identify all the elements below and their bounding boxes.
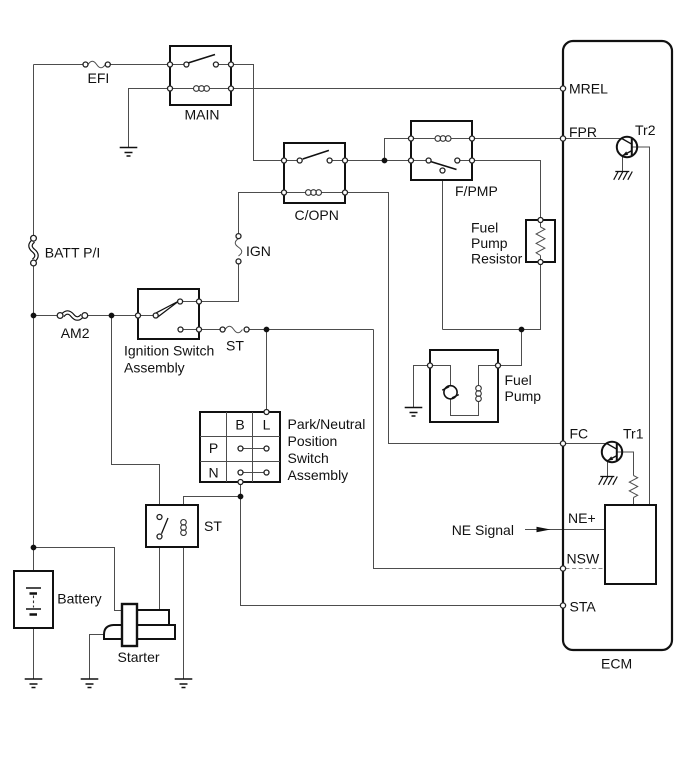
svg-text:F/PMP: F/PMP <box>455 183 498 199</box>
svg-text:P: P <box>209 440 218 456</box>
svg-text:N: N <box>208 465 218 481</box>
svg-text:Fuel: Fuel <box>471 220 498 236</box>
svg-text:BATT P/I: BATT P/I <box>45 245 101 261</box>
svg-text:Position: Position <box>288 433 338 449</box>
svg-text:EFI: EFI <box>88 70 110 86</box>
svg-text:Tr2: Tr2 <box>635 122 656 138</box>
svg-text:Assembly: Assembly <box>124 360 185 376</box>
svg-text:Pump: Pump <box>471 235 508 251</box>
svg-text:Tr1: Tr1 <box>623 426 644 442</box>
svg-text:B: B <box>235 417 244 433</box>
svg-text:Switch: Switch <box>288 450 329 466</box>
svg-text:L: L <box>263 417 271 433</box>
svg-text:ECM: ECM <box>601 656 632 672</box>
svg-text:Resistor: Resistor <box>471 251 523 267</box>
svg-text:Pump: Pump <box>505 388 542 404</box>
svg-text:AM2: AM2 <box>61 325 90 341</box>
svg-text:NE+: NE+ <box>568 510 596 526</box>
svg-text:NSW: NSW <box>567 551 600 567</box>
svg-text:MREL: MREL <box>569 81 608 97</box>
svg-text:C/OPN: C/OPN <box>295 207 339 223</box>
svg-text:Starter: Starter <box>118 649 160 665</box>
svg-text:FC: FC <box>570 426 589 442</box>
svg-text:ST: ST <box>226 338 244 354</box>
svg-text:NE Signal: NE Signal <box>452 522 514 538</box>
svg-text:Battery: Battery <box>57 591 101 607</box>
svg-text:MAIN: MAIN <box>185 107 220 123</box>
svg-text:Ignition Switch: Ignition Switch <box>124 343 214 359</box>
svg-text:ST: ST <box>204 518 222 534</box>
svg-text:Park/Neutral: Park/Neutral <box>288 416 366 432</box>
svg-text:IGN: IGN <box>246 243 271 259</box>
svg-text:Assembly: Assembly <box>288 467 349 483</box>
svg-text:Fuel: Fuel <box>505 372 532 388</box>
svg-text:STA: STA <box>570 599 597 615</box>
svg-text:FPR: FPR <box>569 124 597 140</box>
